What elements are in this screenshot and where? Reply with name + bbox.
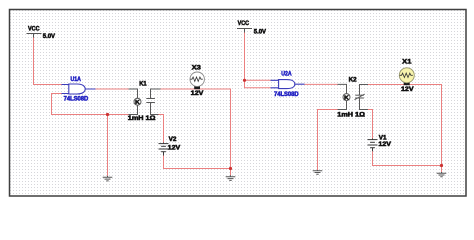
svg-text:K: K bbox=[344, 95, 349, 101]
svg-text:1mH 1Ω: 1mH 1Ω bbox=[337, 113, 365, 119]
svg-text:5.0V: 5.0V bbox=[254, 30, 266, 36]
svg-text:74LS08D: 74LS08D bbox=[274, 92, 299, 98]
svg-text:K: K bbox=[135, 100, 140, 106]
svg-text:12V: 12V bbox=[378, 142, 391, 148]
svg-text:1mH 1Ω: 1mH 1Ω bbox=[128, 116, 156, 122]
svg-text:5.0V: 5.0V bbox=[43, 34, 55, 40]
svg-text:X3: X3 bbox=[192, 66, 202, 72]
svg-text:X1: X1 bbox=[402, 59, 412, 65]
svg-text:12V: 12V bbox=[168, 146, 181, 152]
svg-text:K1: K1 bbox=[139, 81, 147, 87]
svg-text:VCC: VCC bbox=[28, 26, 40, 32]
svg-text:K2: K2 bbox=[349, 78, 358, 84]
svg-text:12V: 12V bbox=[401, 87, 414, 93]
svg-text:V2: V2 bbox=[169, 137, 177, 143]
svg-text:U1A: U1A bbox=[71, 77, 82, 83]
svg-text:V1: V1 bbox=[379, 136, 387, 142]
svg-text:U2A: U2A bbox=[281, 71, 292, 77]
svg-text:12V: 12V bbox=[191, 91, 204, 97]
svg-text:74LS08D: 74LS08D bbox=[64, 96, 89, 102]
svg-text:VCC: VCC bbox=[238, 21, 250, 27]
